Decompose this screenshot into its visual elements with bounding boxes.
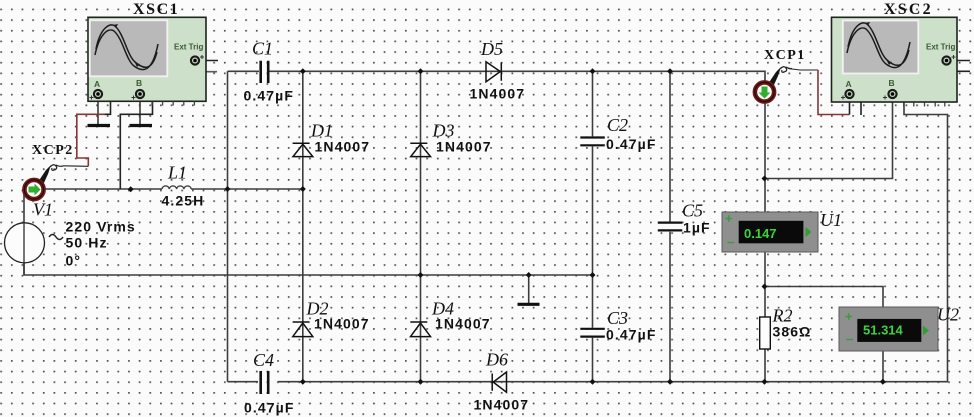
junction bottom rail at U2 <box>880 379 886 385</box>
svg-text:XSC2: XSC2 <box>884 1 933 18</box>
svg-text:D1: D1 <box>310 121 333 141</box>
ground bar <box>518 303 540 306</box>
svg-text:4.25H: 4.25H <box>162 193 205 209</box>
oscilloscope XSC2 <box>832 17 958 106</box>
wire XSC1 B ground lead <box>139 97 141 124</box>
wire V1 bottom to mid-lower rail <box>24 263 593 275</box>
svg-text:1N4007: 1N4007 <box>470 86 526 102</box>
svg-text:0.47µF: 0.47µF <box>606 136 656 152</box>
wire D1-D2 vertical <box>302 71 304 381</box>
wire D3-D4 vertical <box>420 71 422 381</box>
svg-text:A: A <box>846 79 852 89</box>
capacitor C4 <box>261 371 269 394</box>
svg-text:1N4007: 1N4007 <box>435 316 491 332</box>
wire C2-C3 vertical bottom <box>592 338 594 382</box>
junction ground tap on mid rail <box>526 272 532 278</box>
wire XSC2 A- stub <box>852 94 862 115</box>
svg-text:0°: 0° <box>66 253 82 269</box>
svg-text:220 Vrms: 220 Vrms <box>66 219 136 235</box>
diode D5 <box>486 62 501 82</box>
svg-text:0.47µF: 0.47µF <box>606 327 656 343</box>
wire XSC1 A ground lead <box>97 97 99 124</box>
diode D2 <box>293 322 313 337</box>
junction bottom rail at C5 <box>667 379 673 385</box>
wire U1 to R2 <box>764 252 766 317</box>
svg-text:C1: C1 <box>252 39 273 59</box>
wire L1 to D1-D2 node <box>191 188 303 190</box>
svg-text:XCP1: XCP1 <box>764 48 806 63</box>
voltmeter U2 <box>839 307 938 351</box>
svg-text:1µF: 1µF <box>683 220 711 236</box>
capacitor C1 <box>261 61 269 83</box>
svg-text:XCP2: XCP2 <box>32 143 74 158</box>
oscilloscope XSC1 <box>88 17 206 105</box>
svg-text:U1: U1 <box>820 210 842 230</box>
junction top rail at D1 <box>300 68 306 74</box>
ammeter U1 <box>722 212 818 252</box>
junction top rail at C5 <box>667 68 673 74</box>
ground stub (mid rail) <box>528 275 530 303</box>
svg-text:1N4007: 1N4007 <box>436 139 492 155</box>
wire XSC1 B+ hook to L1 node <box>120 94 152 189</box>
svg-text:1N4007: 1N4007 <box>314 316 370 332</box>
svg-text:D6: D6 <box>485 350 508 370</box>
wire XSC2 ext trig stub <box>950 60 970 62</box>
svg-text:XSC1: XSC1 <box>133 1 179 18</box>
junction left rail / L1 wire <box>225 186 231 192</box>
wire XSC1 A+ hook <box>100 94 111 114</box>
svg-text:D3: D3 <box>432 121 455 141</box>
svg-text:C4: C4 <box>253 350 274 370</box>
junction bottom rail at D2 <box>300 379 306 385</box>
svg-text:U2: U2 <box>937 305 959 325</box>
svg-text:R2: R2 <box>772 306 793 326</box>
capacitor C2 <box>580 138 605 146</box>
junction bottom rail at C3 <box>590 379 596 385</box>
wire XCP2 probe cable <box>63 165 88 168</box>
wire XSC2 ext trig hook <box>947 63 970 71</box>
diode D6 <box>492 372 506 392</box>
junction at XSC1 B probe on L1 wire <box>128 186 134 192</box>
svg-text:50 Hz: 50 Hz <box>66 235 108 251</box>
svg-text:A: A <box>94 79 100 89</box>
svg-text:386Ω: 386Ω <box>773 324 812 340</box>
AC source V1 <box>5 223 64 263</box>
wire R2 node to U2 top <box>765 287 884 308</box>
svg-text:0.47µF: 0.47µF <box>244 88 294 104</box>
svg-text:1N4007: 1N4007 <box>474 397 530 413</box>
wire U2 bottom to rail <box>882 351 884 382</box>
svg-text:C3: C3 <box>607 308 628 328</box>
capacitor C3 <box>580 329 605 337</box>
svg-text:0.47µF: 0.47µF <box>244 400 294 416</box>
junction U2 tap on R2 wire <box>762 284 768 290</box>
svg-text:V1: V1 <box>33 200 53 220</box>
wire bottom rail left segment (to C4) <box>228 381 259 383</box>
inductor L1 coil <box>162 186 191 189</box>
current probe XCP2 <box>24 165 63 199</box>
junction mid rail at C2-C3 <box>590 272 596 278</box>
junction D1-D2 node <box>300 186 306 192</box>
wire top rail main segment (C1 to XCP1 corner) <box>270 71 766 212</box>
wire bottom rail main segment (C4 to XSC2 B-) <box>278 94 948 382</box>
ground bar under XSC1 B <box>130 124 153 127</box>
wire left vertical rail <box>227 71 229 381</box>
svg-text:B: B <box>889 78 895 88</box>
junction D3-D4 node on mid rail <box>418 272 424 278</box>
wire C5 vertical bottom <box>669 232 671 382</box>
svg-text:C2: C2 <box>607 115 628 135</box>
svg-text:D5: D5 <box>480 39 503 59</box>
svg-text:51.314: 51.314 <box>863 323 904 338</box>
junction XSC2 B+ tap on U1 wire <box>762 176 768 182</box>
junction bottom rail at R2 <box>762 379 768 385</box>
svg-text:Ext Trig: Ext Trig <box>926 43 955 52</box>
diode D4 <box>410 322 430 337</box>
wire XSC2 B+ to U1 node <box>765 98 893 179</box>
wire XCP1 red lead to XSC2 A <box>818 70 850 115</box>
diode D3 <box>410 143 430 156</box>
svg-text:L1: L1 <box>167 163 187 183</box>
svg-text:Ext Trig: Ext Trig <box>174 43 203 52</box>
wire XSC1 ext trig stub <box>199 60 218 62</box>
wire R2 to bottom rail <box>764 349 766 382</box>
wire C5 vertical top <box>669 71 671 221</box>
resistor R2 <box>760 317 771 349</box>
current probe XCP1 <box>755 67 792 102</box>
wire V1 top to L1 node (mid-upper rail) <box>24 189 162 275</box>
junction top rail at C2 <box>590 68 596 74</box>
svg-text:C5: C5 <box>682 201 703 221</box>
svg-text:1N4007: 1N4007 <box>315 139 371 155</box>
junction bottom rail at D4 <box>418 379 424 385</box>
ground bar under XSC1 A <box>88 124 111 127</box>
diode D1 <box>293 143 313 156</box>
wire XSC1 ext trig hook <box>195 63 217 72</box>
wire XSC2 A+ riser <box>849 98 851 115</box>
svg-text:0.147: 0.147 <box>744 226 777 241</box>
wire XCP2 red lead <box>77 114 105 166</box>
junction top rail at D3 <box>418 68 424 74</box>
wire top rail left segment (to C1) <box>228 70 260 72</box>
wire C2-C3 vertical top <box>592 71 594 136</box>
wire C2-C3 vertical middle <box>592 146 594 327</box>
wire XCP1 probe cable <box>788 69 818 71</box>
capacitor C5 <box>658 223 683 231</box>
svg-text:B: B <box>136 78 142 88</box>
